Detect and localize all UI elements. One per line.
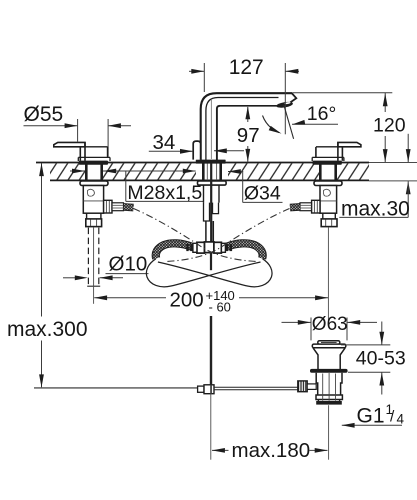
left valve hose braid stub: [124, 203, 134, 211]
dimension max.180: [212, 449, 229, 451]
horizontal actuating rod: [214, 386, 298, 388]
left hose braid at tee: [156, 243, 193, 258]
drain tailpipe: [318, 400, 339, 402]
svg-text:127: 127: [229, 56, 264, 79]
spout base plate: [196, 160, 226, 164]
down tube into tee: [206, 221, 213, 242]
pop-up rod lower segment: [210, 316, 212, 393]
svg-text:/: /: [390, 409, 395, 426]
svg-text:Ø55: Ø55: [24, 103, 64, 126]
dimension 97: [247, 107, 249, 122]
dimension 127: [189, 63, 299, 134]
left valve flange nut below counter: [80, 181, 108, 186]
dash-dot hose path right: [166, 209, 290, 262]
rod coupling blocks: [198, 386, 204, 392]
tee body: [204, 242, 214, 253]
countertop hatched section: [50, 163, 369, 179]
left valve handle lever: [54, 142, 85, 146]
right valve handle body: [316, 142, 361, 160]
dimension O63: [282, 321, 311, 323]
spout right edge of riser: [217, 106, 220, 160]
svg-text:Ø10: Ø10: [109, 253, 148, 276]
spout underside line: [219, 105, 277, 107]
dimension 40-53: [341, 344, 390, 346]
dimension max.30: [407, 134, 409, 162]
pop-up rod upper segment: [210, 163, 212, 242]
left valve centerline extension: [93, 227, 95, 304]
left hose loop: [146, 259, 260, 287]
svg-text:97: 97: [237, 124, 260, 147]
right hose braid at tee: [226, 243, 263, 258]
spout inner contour: [206, 98, 279, 161]
right valve handle lever: [338, 142, 361, 146]
drain knurled knob: [298, 381, 307, 392]
svg-text:max.300: max.300: [7, 318, 88, 341]
tee right nuts: [214, 242, 222, 253]
svg-text:G1: G1: [357, 405, 385, 428]
aerator: [276, 101, 293, 109]
spout outer contour: [201, 93, 292, 160]
dimension max.300: [41, 163, 43, 317]
right valve shank walls in counter: [319, 163, 322, 181]
countertop bottom line: [50, 179, 369, 181]
right valve lower body: [323, 213, 336, 219]
right valve side nipple hex: [312, 200, 320, 213]
svg-text:- 60: - 60: [209, 299, 231, 314]
drain seal ring: [310, 369, 348, 373]
drain pop-up waste top dome: [318, 341, 340, 345]
svg-text:34: 34: [153, 131, 176, 154]
svg-text:16°: 16°: [307, 103, 337, 125]
lowest rod position line: [34, 387, 198, 389]
left valve handle body: [54, 142, 108, 160]
drain extension line below: [328, 405, 330, 460]
countertop top surface line: [36, 162, 369, 164]
left valve nipple ribbed cylinder: [112, 203, 124, 211]
tee left nuts: [197, 242, 205, 253]
left valve escutcheon: [78, 157, 110, 161]
spout shank walls in counter: [202, 163, 222, 181]
left valve side nipple hex: [104, 200, 112, 213]
pop-up rod knob: [193, 141, 200, 160]
drain flange plate: [312, 344, 346, 348]
svg-text:40-53: 40-53: [356, 347, 406, 369]
right valve flange nut below counter: [314, 181, 342, 186]
svg-text:120: 120: [373, 114, 406, 136]
right valve hose braid stub: [290, 203, 300, 211]
dimension 200 +140/-60: [94, 297, 166, 299]
right hose loop: [158, 259, 272, 287]
16 degree water stream line: [284, 105, 294, 139]
drain body: [316, 373, 342, 395]
spout shank tubes below flange: [204, 185, 220, 221]
right valve nipple ribbed cylinder: [300, 203, 312, 211]
svg-text:Ø34: Ø34: [244, 182, 281, 204]
right valve body below counter: [320, 186, 337, 214]
spout vertical rod line inside riser: [210, 100, 212, 159]
right valve hex nut: [321, 219, 337, 227]
left valve lower body: [87, 213, 101, 219]
svg-text:max.180: max.180: [232, 439, 311, 462]
dash-dot hose path left: [134, 209, 258, 262]
right valve escutcheon: [312, 157, 344, 161]
spout shank flange nut below counter: [198, 181, 227, 185]
svg-text:4: 4: [397, 412, 405, 427]
left valve shank walls in counter: [85, 163, 88, 181]
svg-text:M28x1,5: M28x1,5: [127, 182, 202, 204]
svg-text:200: 200: [170, 289, 204, 312]
drain bottom collar: [316, 395, 342, 400]
rod extension line below: [210, 394, 212, 460]
svg-text:Ø63: Ø63: [312, 314, 348, 335]
pop-up rod below tee: [210, 253, 212, 270]
dimension 120: [293, 92, 393, 94]
left valve body below counter: [83, 186, 103, 214]
left valve hex nut: [86, 219, 102, 227]
16 degree arc arrow: [263, 116, 280, 133]
spout tip end cap: [290, 93, 296, 103]
left valve dashed pipes (O10): [88, 228, 98, 285]
drain taper neck: [313, 348, 345, 369]
right valve centerline extension: [327, 227, 329, 326]
